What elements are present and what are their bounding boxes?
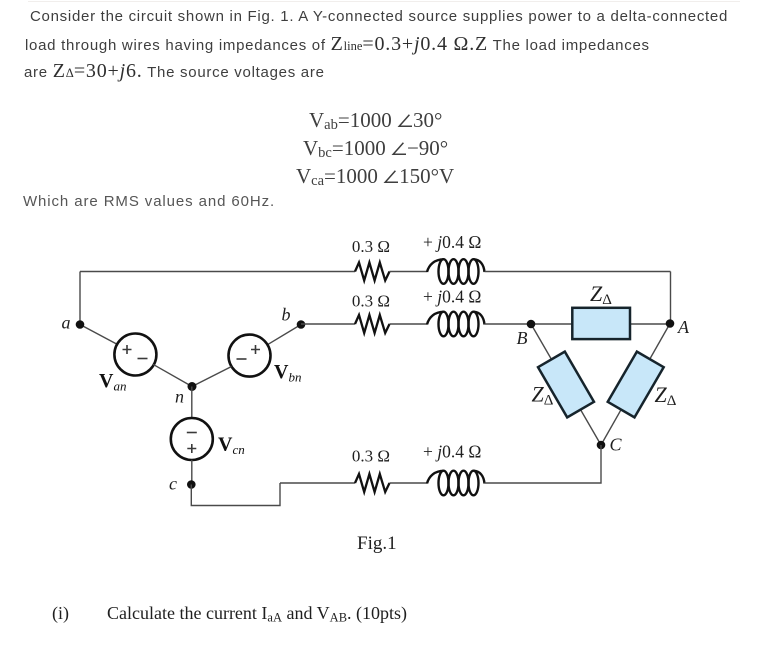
wire: bottom L to C riser: [485, 445, 602, 483]
inductor +j0.4 ohm line b: [427, 312, 485, 337]
resistor 0.3 ohm line a: [355, 263, 390, 281]
svg-text:B: B: [517, 328, 528, 348]
faint top rule: [28, 1, 740, 2]
node B dot: [527, 320, 536, 329]
wire: b to Vbn: [268, 325, 302, 345]
wire: top between R and L: [390, 271, 428, 273]
svg-text:n: n: [175, 387, 184, 407]
load Z-delta right box: [608, 352, 664, 418]
svg-text:Vcn: Vcn: [218, 434, 245, 458]
svg-text:+ j0.4 Ω: + j0.4 Ω: [423, 232, 481, 252]
Van minus sign: [138, 358, 148, 360]
wire: Vcn to c: [191, 460, 193, 485]
Vcn minus sign: [187, 432, 197, 434]
load Z-delta left box: [538, 352, 594, 418]
source Vcn circle: [171, 418, 213, 460]
wire: right vertical to A: [670, 272, 672, 325]
equation Vca: [296, 164, 454, 189]
wire: left vertical a to top: [79, 272, 81, 326]
question (i): [52, 603, 407, 626]
RMS note: [23, 193, 275, 210]
wire: top horizontal left segment: [80, 271, 355, 273]
source Van circle: [114, 334, 156, 376]
wire: top right segment: [485, 271, 671, 273]
node C dot: [597, 441, 606, 450]
wire: c jog down: [191, 483, 280, 506]
svg-text:0.3 Ω: 0.3 Ω: [352, 292, 390, 311]
svg-text:+ j0.4 Ω: + j0.4 Ω: [423, 287, 481, 307]
equation Vbc: [303, 136, 448, 161]
Vcn plus sign: [187, 444, 196, 453]
Vbn plus sign: [251, 345, 260, 354]
wire: delta edge A to C: [601, 324, 670, 446]
equation Vab: [309, 108, 442, 133]
wire: row2 b to R: [301, 323, 355, 325]
wire: row2 between R and L: [390, 323, 428, 325]
wire: bottom row to R: [280, 482, 355, 484]
svg-text:Van: Van: [99, 370, 126, 394]
paragraph line 1: [30, 8, 728, 25]
node a dot: [76, 320, 85, 329]
paragraph line 2: [25, 33, 650, 56]
node b dot: [297, 320, 306, 329]
svg-text:ZΔ: ZΔ: [655, 382, 677, 409]
wire: a to Van: [80, 325, 118, 345]
Vbn minus sign: [237, 358, 247, 360]
svg-text:0.3 Ω: 0.3 Ω: [352, 447, 390, 466]
svg-text:Vbn: Vbn: [274, 361, 301, 385]
svg-text:A: A: [677, 317, 690, 337]
node c dot: [187, 480, 196, 489]
wire: n to Vcn: [191, 387, 193, 419]
paragraph line 3: [24, 60, 325, 83]
svg-text:ZΔ: ZΔ: [590, 281, 612, 308]
svg-text:0.3 Ω: 0.3 Ω: [352, 237, 390, 256]
inductor +j0.4 ohm line c: [427, 471, 485, 496]
svg-text:+ j0.4 Ω: + j0.4 Ω: [423, 442, 481, 462]
wire: Vbn to n: [192, 367, 232, 387]
node A dot: [666, 319, 675, 328]
wire: bottom between R and L: [390, 482, 428, 484]
load Z-delta top box: [572, 308, 630, 339]
svg-text:c: c: [169, 474, 177, 494]
wire: row2 L to B: [485, 323, 532, 325]
wire: B to A behind load: [531, 323, 670, 325]
svg-text:b: b: [282, 305, 291, 325]
svg-text:C: C: [610, 435, 623, 455]
wire: Van to n: [153, 364, 192, 386]
resistor 0.3 ohm line c: [355, 474, 390, 492]
Van plus sign: [123, 345, 132, 354]
source Vbn circle: [229, 335, 271, 377]
figure caption: [357, 533, 397, 555]
wire: delta edge B to C: [531, 324, 601, 445]
svg-text:a: a: [62, 313, 71, 333]
resistor 0.3 ohm line b: [355, 315, 390, 333]
inductor +j0.4 ohm line a: [427, 259, 485, 284]
node n dot: [188, 382, 197, 391]
